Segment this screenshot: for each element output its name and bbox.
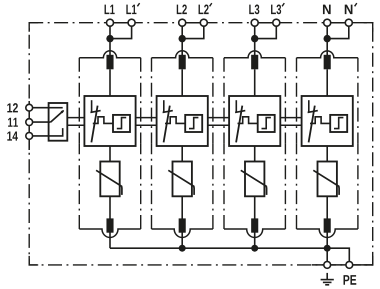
- triggered spark gap (L3 module): [229, 96, 280, 146]
- plug-in contact bottom (L3 module): [251, 218, 258, 232]
- label L1: [105, 5, 115, 14]
- wire bottom contact to PE bus (L3 module): [254, 232, 256, 249]
- wire terminal 14 to remote contact: [33, 135, 49, 137]
- wire varistor to bottom contact (L2 module): [181, 196, 183, 220]
- triggered spark gap (N module): [302, 96, 353, 146]
- changeover contact, remote signalling (12/11/14): [49, 103, 68, 141]
- wire varistor to bottom contact (L1 module): [109, 196, 111, 220]
- wire varistor to bottom contact (L3 module): [254, 196, 256, 220]
- node PE bus L2: [179, 245, 186, 252]
- triggered spark gap (L2 module): [157, 96, 208, 146]
- wire bottom contact to PE bus (L2 module): [181, 232, 183, 249]
- node L3 junction: [251, 35, 258, 42]
- terminal L1: [107, 19, 114, 26]
- terminal 12: [26, 104, 33, 111]
- plug-in contact bottom (N module): [324, 218, 331, 232]
- wire varistor to bottom contact (N module): [326, 196, 328, 220]
- wire top contact to spark gap (N module): [326, 69, 328, 96]
- ground (PE): [321, 273, 334, 285]
- terminal PE (ground side): [324, 262, 331, 269]
- wire L1' terminal to junction: [110, 23, 132, 39]
- wire L3 junction to top plug contact: [254, 39, 256, 57]
- node L1 junction: [106, 35, 113, 42]
- wire terminal 11 to remote contact: [33, 121, 49, 123]
- wire left border solid segment at remote terminals: [28, 101, 30, 150]
- plug-in contact top (L3 module): [251, 55, 258, 70]
- wire spark gap to varistor (L1 module): [109, 146, 111, 162]
- plug-in contact bottom (L2 module): [179, 218, 186, 232]
- label 12: [7, 103, 18, 112]
- wire L2 junction to top plug contact: [181, 39, 183, 57]
- node PE bus L3: [251, 245, 258, 252]
- plug-in contact top (L1 module): [106, 55, 113, 70]
- terminal L1': [128, 19, 135, 26]
- terminal N: [324, 19, 331, 26]
- wire L1 junction to top plug contact: [109, 39, 111, 57]
- wire PE bus to second PE terminal: [327, 248, 349, 265]
- wire bottom border solid segment at PE terminals: [312, 264, 373, 266]
- label PE: [344, 275, 357, 285]
- module N boundary (dash-dot with plug sockets): [297, 51, 358, 238]
- terminal L2': [200, 19, 207, 26]
- wire L3' terminal to junction: [255, 23, 277, 39]
- wire spark gap to varistor (L3 module): [254, 146, 256, 162]
- label 14: [7, 132, 18, 141]
- node L2 junction: [179, 35, 186, 42]
- wire L3 terminal to junction: [254, 23, 256, 39]
- module L1 boundary (dash-dot with plug sockets): [79, 51, 140, 238]
- terminal 11: [26, 119, 33, 126]
- wire spark gap to varistor (L2 module): [181, 146, 183, 162]
- wire N' terminal to junction: [327, 23, 349, 39]
- wire PE bus to PE terminal: [326, 248, 328, 265]
- link wires between spark gap modules (double lines): [67, 118, 301, 126]
- node PE bus N: [324, 245, 331, 252]
- label L3': [271, 3, 284, 14]
- device enclosure boundary (dash-dot border): [29, 23, 373, 265]
- wire bottom contact to PE bus (L1 module): [109, 232, 111, 249]
- wire L2' terminal to junction: [182, 23, 204, 39]
- varistor (L1 module): [96, 162, 122, 197]
- wire L1 terminal to junction: [109, 23, 111, 39]
- label L2': [199, 3, 212, 14]
- plug-in contact top (N module): [324, 55, 331, 70]
- wire top contact to spark gap (L1 module): [109, 69, 111, 96]
- wire top border solid segments between paired terminals: [110, 22, 349, 24]
- plug-in contact bottom (L1 module): [106, 218, 113, 232]
- label L1': [126, 3, 139, 14]
- plug-in contact top (L2 module): [179, 55, 186, 70]
- wire top contact to spark gap (L2 module): [181, 69, 183, 96]
- wire top contact to spark gap (L3 module): [254, 69, 256, 96]
- wire terminal 12 to remote contact: [33, 107, 49, 109]
- triggered spark gap (L1 module): [84, 96, 135, 146]
- label N: [323, 5, 331, 14]
- varistor (N module): [313, 162, 339, 197]
- label N': [345, 3, 357, 14]
- wire bottom contact to PE bus (N module): [326, 232, 328, 249]
- varistor (L3 module): [241, 162, 267, 197]
- terminal PE (second): [346, 262, 353, 269]
- terminal L3: [251, 19, 258, 26]
- terminal L2: [179, 19, 186, 26]
- PE bus wire: [110, 247, 327, 249]
- wire spark gap to varistor (N module): [326, 146, 328, 162]
- module L2 boundary (dash-dot with plug sockets): [152, 51, 213, 238]
- label L2: [177, 5, 187, 15]
- terminal 14: [26, 133, 33, 140]
- terminal N': [345, 19, 352, 26]
- label 11: [8, 118, 18, 127]
- wire N junction to top plug contact: [326, 39, 328, 57]
- terminal L3': [273, 19, 280, 26]
- module L3 boundary (dash-dot with plug sockets): [224, 51, 285, 238]
- label L3: [249, 5, 259, 15]
- node N junction: [324, 35, 331, 42]
- wire L2 terminal to junction: [181, 23, 183, 39]
- wire N terminal to junction: [326, 23, 328, 39]
- varistor (L2 module): [168, 162, 194, 197]
